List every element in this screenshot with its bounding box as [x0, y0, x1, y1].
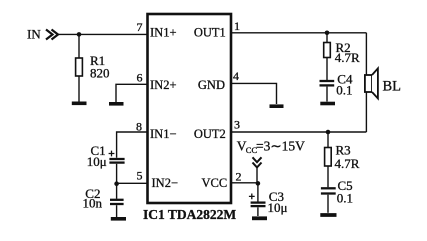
svg-text:7: 7 [137, 20, 143, 34]
svg-text:=3∼15V: =3∼15V [256, 138, 305, 153]
svg-text:5: 5 [137, 169, 143, 183]
svg-text:4.7R: 4.7R [335, 156, 360, 171]
net label VCC = 3~15V [237, 138, 305, 155]
svg-text:10μ: 10μ [87, 154, 107, 169]
value label C1 10u [87, 143, 107, 169]
resistor R2 [324, 33, 331, 80]
svg-text:2: 2 [236, 170, 242, 184]
svg-text:OUT2: OUT2 [194, 127, 226, 141]
power supply arrow [253, 157, 262, 183]
wire speaker vertical [365, 33, 367, 132]
value label R3 4.7R [335, 142, 360, 171]
capacitor C3 (polarity +) [249, 183, 266, 216]
wire pin 2 (VCC) [231, 182, 258, 184]
svg-text:10μ: 10μ [268, 200, 288, 215]
svg-text:IN1−: IN1− [150, 127, 177, 141]
capacitor C4 [320, 81, 335, 102]
value label R2 4.7R [335, 40, 360, 65]
wire pin 5 [117, 182, 148, 184]
svg-text:IN1+: IN1+ [150, 26, 177, 40]
value label C2 10n [83, 186, 103, 210]
svg-text:3: 3 [234, 118, 240, 132]
wire pin 3 (OUT2) to speaker bottom [231, 131, 367, 133]
wire pin 4 to ground [231, 83, 277, 104]
value label C3 10u [268, 189, 288, 215]
svg-text:GND: GND [198, 78, 225, 92]
wire input to pin 7 [59, 33, 148, 35]
value label R1 820 [90, 53, 110, 80]
svg-text:BL: BL [383, 79, 402, 95]
svg-text:VCC: VCC [201, 176, 227, 190]
node junction C1/C2/pin5 [114, 181, 119, 186]
IC IC1 TDA2822M [148, 14, 232, 203]
svg-text:4.7R: 4.7R [335, 50, 360, 65]
ground (below R1) [72, 102, 87, 106]
ground (pin 6) [109, 102, 124, 106]
wire pin 8 to C1 [117, 132, 148, 158]
value label C5 0.1 [337, 178, 353, 206]
resistor R1 [76, 34, 83, 101]
resistor R3 [325, 132, 332, 187]
value label C4 0.1 [336, 72, 353, 98]
wire pin 6 to ground [116, 84, 148, 102]
ground (pin 4) [270, 104, 284, 108]
ground (below C5) [320, 213, 336, 217]
svg-text:IN: IN [27, 27, 41, 42]
svg-text:0.1: 0.1 [336, 82, 352, 97]
speaker BL [365, 68, 378, 98]
svg-text:0.1: 0.1 [337, 191, 353, 206]
svg-text:6: 6 [137, 71, 143, 85]
svg-text:820: 820 [90, 65, 110, 80]
capacitor C2 [110, 184, 124, 217]
ground (below C3) [252, 216, 267, 220]
node junction VCC/C3 [256, 181, 261, 186]
capacitor C5 [321, 188, 336, 213]
node junction input/R1 [77, 32, 82, 37]
svg-text:IN2+: IN2+ [150, 78, 177, 92]
svg-text:4: 4 [233, 69, 239, 83]
svg-text:OUT1: OUT1 [194, 26, 226, 40]
ground (below C2) [111, 217, 126, 221]
svg-text:IN2−: IN2− [152, 176, 179, 190]
node junction OUT1/R2 [325, 31, 330, 36]
capacitor C1 (polarity +) [109, 151, 125, 184]
svg-text:10n: 10n [83, 195, 103, 210]
svg-text:1: 1 [234, 19, 240, 33]
svg-text:IC1 TDA2822M: IC1 TDA2822M [143, 207, 236, 222]
node junction OUT2/R3 [326, 130, 331, 135]
ground (below C4) [320, 102, 335, 106]
wire pin 1 (OUT1) to speaker top [231, 32, 367, 34]
node IN [27, 27, 58, 42]
